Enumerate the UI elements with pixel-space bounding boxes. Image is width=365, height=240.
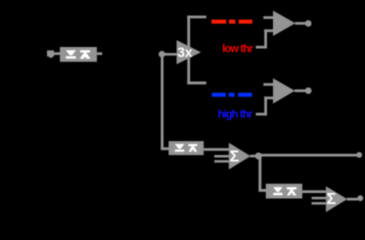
wire sum2 output	[347, 198, 358, 201]
svg-text:Σ: Σ	[327, 191, 337, 208]
output node (low)	[305, 20, 312, 27]
wire sum1 to junction B	[250, 155, 257, 158]
wire RT2 to sum1	[204, 148, 230, 151]
svg-text:Σ: Σ	[230, 149, 240, 166]
output node (high)	[305, 87, 312, 94]
signal wire low (red dashed)	[212, 20, 253, 24]
wire corner into RT2	[161, 147, 170, 150]
junction node A	[159, 51, 166, 58]
wire junction B down	[259, 156, 262, 190]
signal wire high (blue dashed)	[212, 93, 252, 97]
wire In1 to RT1	[54, 52, 61, 55]
rate transition RT1	[60, 47, 97, 62]
wire junction A to gain	[160, 53, 177, 56]
rate transition RT3	[266, 184, 303, 199]
junction node B	[255, 153, 262, 160]
wire RT3 to sum2	[302, 190, 326, 193]
gain 3x	[177, 40, 201, 64]
wire corner into RT3	[259, 189, 268, 192]
wire RT1 output stub	[97, 52, 102, 55]
sum S1	[214, 143, 250, 170]
terminator endpoint mid	[356, 152, 362, 158]
wire to high comparator	[187, 82, 206, 85]
sum S2	[312, 186, 348, 212]
svg-text:high thr: high thr	[218, 109, 254, 121]
branch wire vertical at gain output	[187, 16, 190, 85]
terminator endpoint bottom	[357, 195, 363, 201]
rate transition RT2	[169, 141, 204, 155]
input port In1	[47, 50, 54, 57]
wire junction B to right edge	[259, 154, 358, 157]
comparator U1 upper input wire	[263, 16, 273, 19]
wire from low thr label	[256, 29, 273, 48]
comparator U2 upper input wire	[263, 83, 274, 86]
wire to low comparator	[187, 16, 206, 19]
svg-text:3x: 3x	[177, 45, 193, 60]
comparator U1 (low)	[273, 11, 295, 36]
comparator U2 (high)	[273, 78, 295, 103]
wire U1 output	[295, 22, 306, 25]
wire junction A down	[161, 54, 164, 149]
wire U2 output	[295, 89, 306, 92]
wire from high thr label	[256, 97, 273, 116]
svg-text:low thr: low thr	[222, 43, 254, 55]
